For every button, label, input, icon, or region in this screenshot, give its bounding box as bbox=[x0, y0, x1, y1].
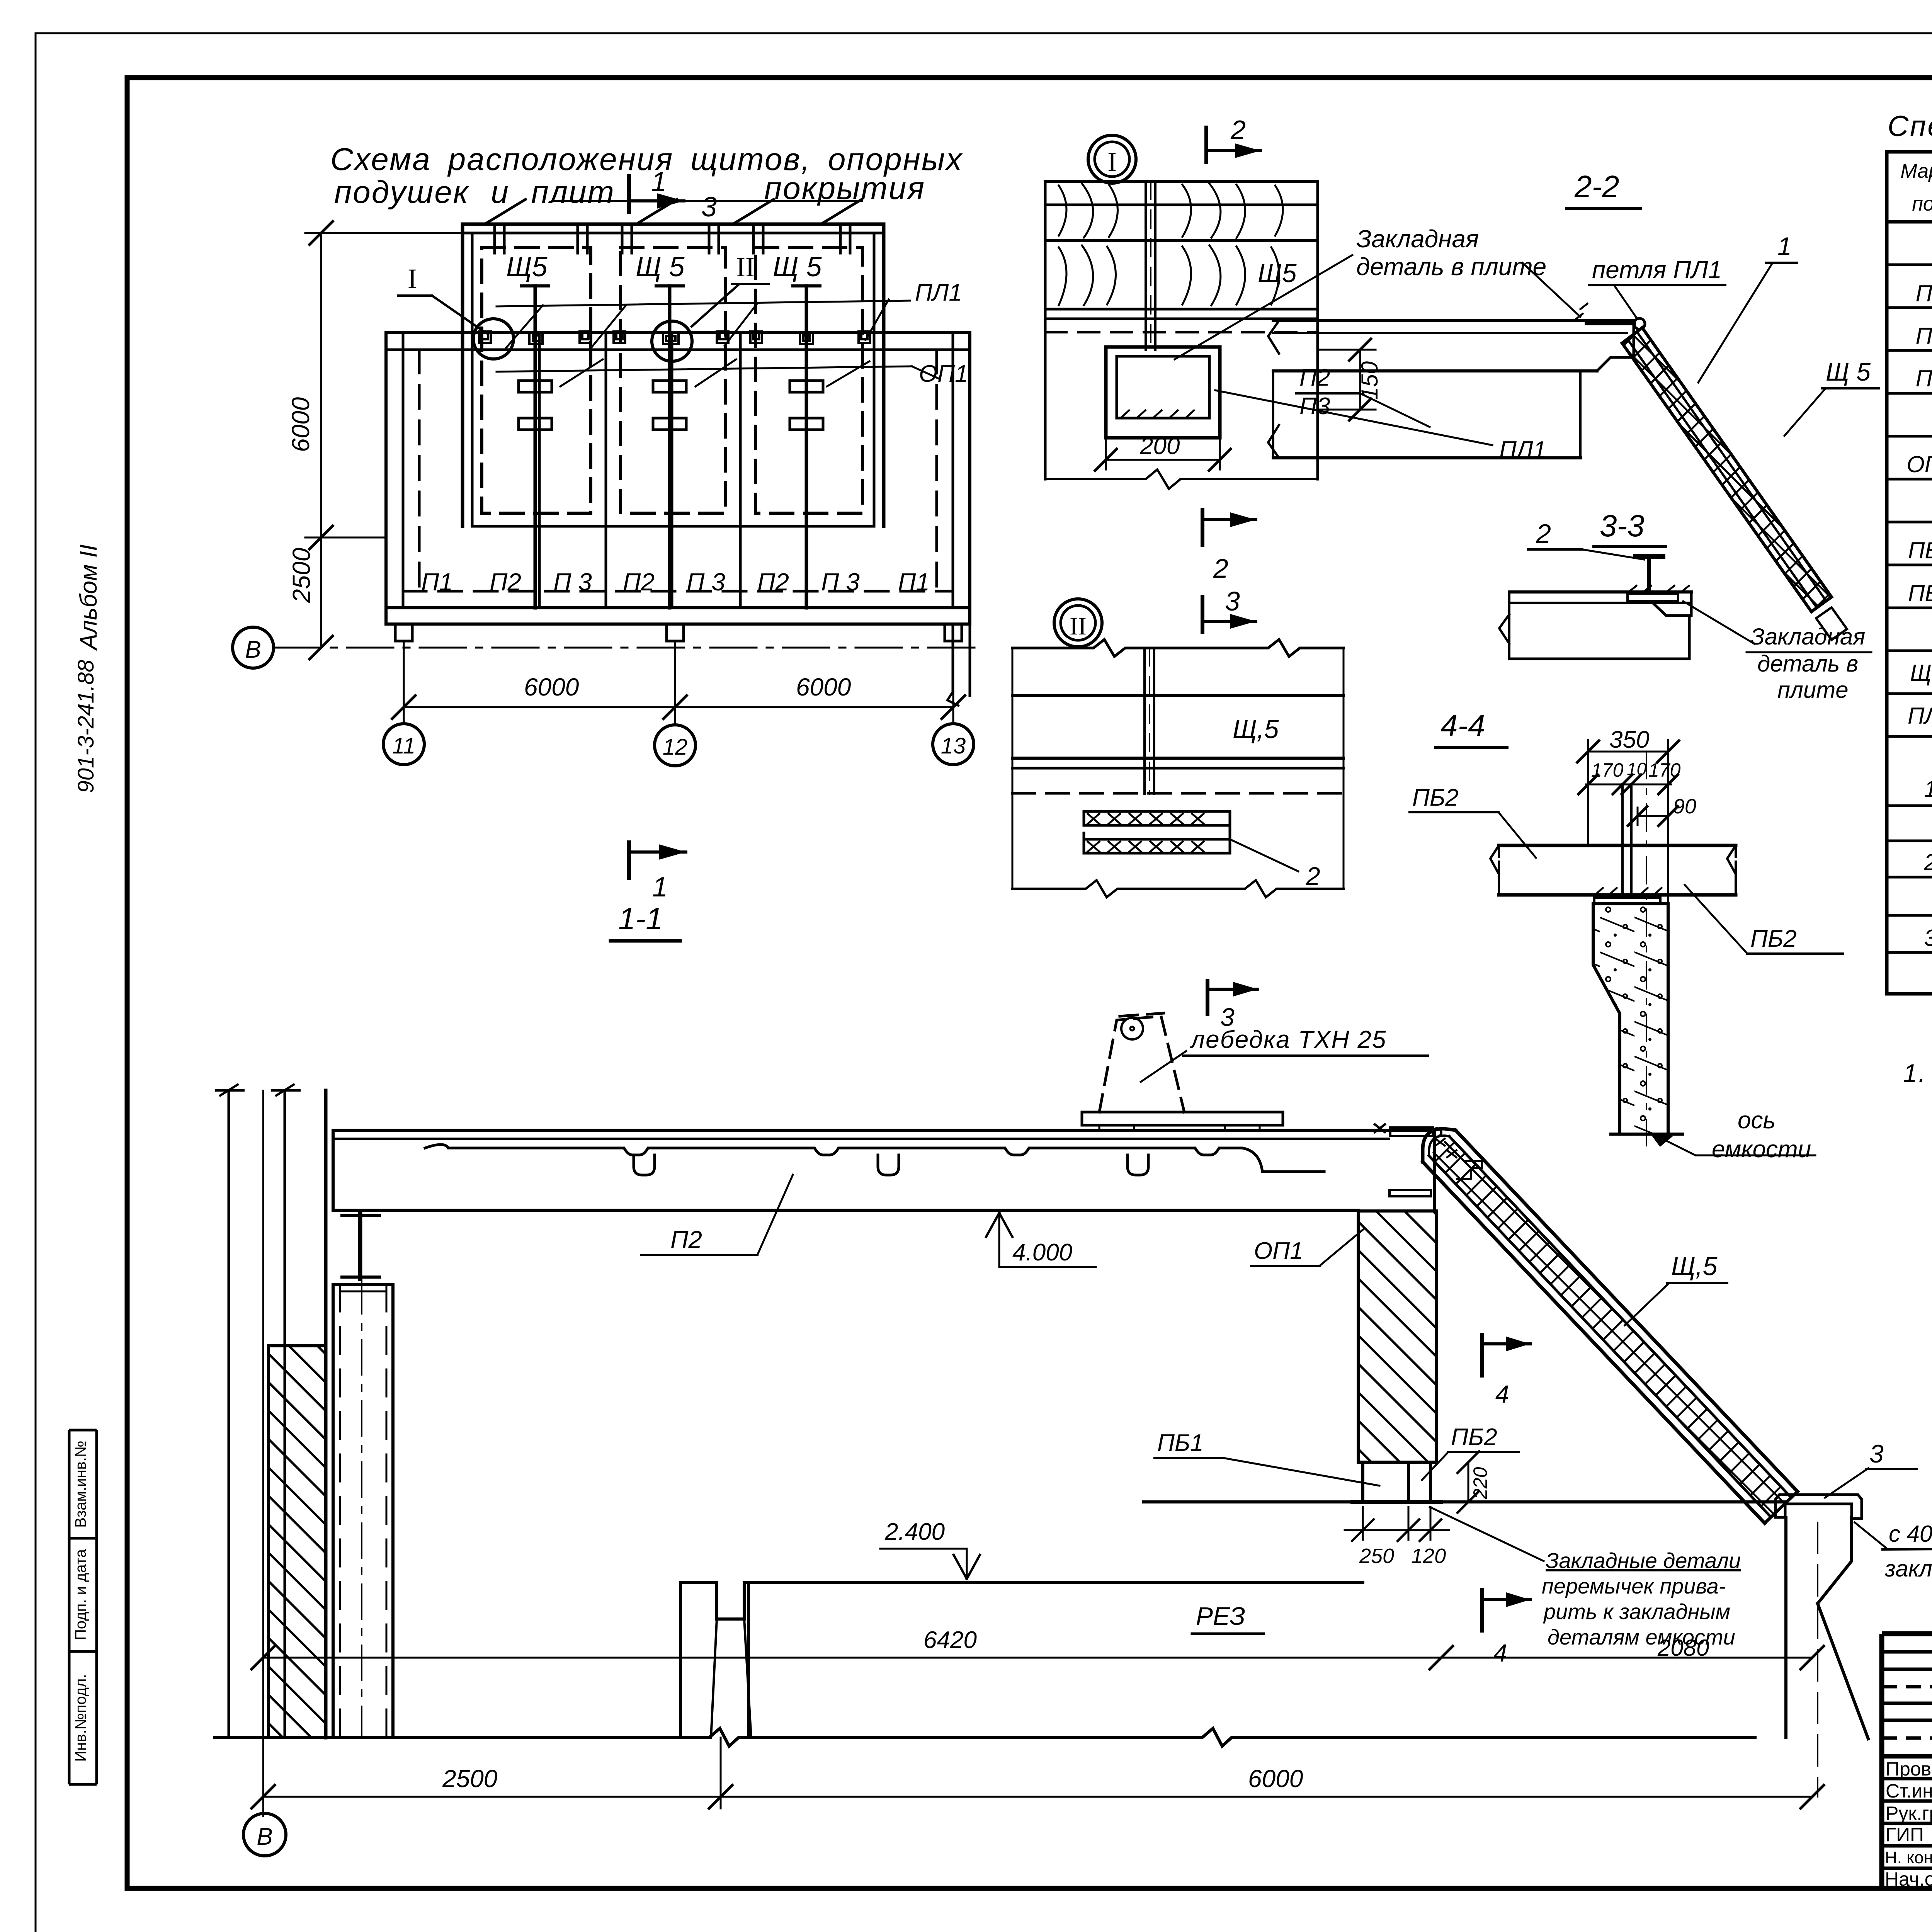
svg-text:13: 13 bbox=[941, 733, 966, 759]
150 dim right bbox=[1359, 350, 1361, 410]
axis dash-dot line B bbox=[274, 647, 981, 649]
lower tank block outline bbox=[386, 331, 970, 334]
plate joint lines bbox=[538, 332, 541, 608]
left column bbox=[333, 1284, 393, 1738]
svg-text:3: 3 bbox=[1924, 925, 1932, 951]
svg-text:ПЛ1: ПЛ1 bbox=[915, 279, 962, 306]
SECTION 2-2 bbox=[1268, 169, 1879, 640]
svg-text:II: II bbox=[1070, 612, 1087, 640]
dim line 6000+6000 bbox=[404, 706, 953, 708]
svg-text:подушек и плит: подушек и плит bbox=[334, 175, 615, 210]
beam band bbox=[1499, 844, 1736, 847]
staff labels bbox=[1885, 1758, 1932, 1890]
svg-text:120: 120 bbox=[1411, 1544, 1446, 1568]
svg-text:РЕЗ: РЕЗ bbox=[1196, 1602, 1245, 1630]
svg-text:заклинить: заклинить bbox=[1884, 1556, 1932, 1582]
svg-text:ГИП: ГИП bbox=[1886, 1824, 1924, 1845]
NOTE TEXT bbox=[1903, 1059, 1932, 1194]
svg-text:ПБ2: ПБ2 bbox=[1908, 580, 1932, 606]
svg-text:2-2: 2-2 bbox=[1574, 169, 1619, 204]
dashed line through hooks bbox=[386, 349, 970, 351]
svg-text:I: I bbox=[1107, 147, 1116, 177]
4.000 elevation bbox=[999, 1213, 1096, 1267]
svg-text:емкости: емкости bbox=[1712, 1136, 1811, 1163]
svg-text:П2: П2 bbox=[670, 1226, 702, 1253]
svg-text:П2: П2 bbox=[1916, 323, 1932, 349]
slab end face bbox=[1433, 1130, 1436, 1211]
DETAIL I bbox=[1045, 115, 1546, 632]
ОП1 middle column hatched bbox=[1358, 1211, 1437, 1462]
panel dashed outline 1 bbox=[482, 248, 591, 513]
plan right-edge extension below band bbox=[952, 624, 954, 692]
plank band outline bbox=[1045, 180, 1318, 183]
slab band bbox=[1271, 321, 1634, 367]
svg-text:901-3-241.88: 901-3-241.88 bbox=[73, 660, 99, 793]
tank left wall (стакан) bbox=[680, 1582, 748, 1738]
svg-text:3: 3 bbox=[701, 192, 717, 223]
svg-text:2: 2 bbox=[1536, 519, 1551, 549]
svg-text:1: 1 bbox=[1924, 776, 1932, 802]
bottom dims 2500 6000 bbox=[263, 1796, 1812, 1798]
axis circle 11 bbox=[383, 724, 424, 765]
x marks + plate bbox=[1595, 888, 1662, 895]
svg-text:11: 11 bbox=[392, 733, 415, 759]
svg-text:Щ,5: Щ,5 bbox=[1233, 714, 1279, 744]
section mark 3 bbox=[1201, 597, 1204, 632]
svg-text:2: 2 bbox=[1923, 849, 1932, 875]
hatched bar (item 2) bbox=[1084, 811, 1230, 825]
закладная leader to plate bbox=[1522, 263, 1580, 317]
svg-text:6000: 6000 bbox=[1248, 1765, 1303, 1793]
embedded channel box bbox=[1106, 347, 1220, 438]
hatched wall panel bbox=[269, 1346, 326, 1738]
section mark 2 (top) bbox=[1204, 128, 1208, 162]
panel top inner marks bbox=[1435, 1139, 1456, 1157]
ПЛ1 leader line bbox=[497, 301, 910, 306]
detail circle II bbox=[652, 321, 692, 361]
detail circle I bbox=[473, 319, 514, 359]
svg-text:2500: 2500 bbox=[287, 548, 315, 603]
svg-text:лебедка ТХН 25: лебедка ТХН 25 bbox=[1189, 1026, 1387, 1053]
svg-text:Взам.инв.№: Взам.инв.№ bbox=[72, 1440, 89, 1528]
left dim line bbox=[320, 233, 322, 648]
centre double line bbox=[1145, 182, 1147, 350]
axis verticals to circles bbox=[403, 641, 405, 723]
svg-text:В: В bbox=[257, 1823, 272, 1850]
svg-text:ОП1: ОП1 bbox=[1254, 1238, 1303, 1264]
spec header texts bbox=[1900, 160, 1932, 215]
wood grain waves bbox=[1059, 184, 1118, 238]
axis circle 13 bbox=[933, 724, 974, 765]
перемычки boxes under column bbox=[1363, 1462, 1408, 1502]
svg-text:12: 12 bbox=[663, 735, 688, 760]
I-beam symbol bbox=[1636, 554, 1663, 559]
svg-text:П 3: П 3 bbox=[553, 568, 592, 596]
winch platform bbox=[1082, 1112, 1283, 1125]
svg-text:Щ 5: Щ 5 bbox=[1826, 357, 1871, 386]
svg-text:ПБ2: ПБ2 bbox=[1750, 925, 1797, 952]
axis B vertical bbox=[262, 1090, 264, 1816]
margin stamp cells bbox=[69, 1430, 97, 1784]
svg-text:Н. контр: Н. контр bbox=[1885, 1848, 1932, 1867]
svg-text:П2: П2 bbox=[1299, 364, 1330, 391]
slab band bbox=[1509, 590, 1691, 594]
svg-text:Щ 5: Щ 5 bbox=[636, 252, 685, 282]
section mark 4 upper bbox=[1480, 1335, 1484, 1376]
roof slab: top lines bbox=[333, 1129, 1435, 1132]
svg-text:П1: П1 bbox=[1916, 281, 1932, 306]
svg-text:Рук.гр.: Рук.гр. bbox=[1886, 1803, 1932, 1824]
svg-text:Закладная: Закладная bbox=[1750, 624, 1865, 650]
220 dim rotated bbox=[1468, 1462, 1469, 1502]
svg-text:1-1: 1-1 bbox=[618, 901, 663, 936]
6420 dim bbox=[263, 1657, 1812, 1659]
detail I bubble bbox=[1088, 135, 1136, 183]
svg-text:4: 4 bbox=[1493, 1639, 1507, 1667]
right wall bbox=[1786, 1517, 1868, 1739]
svg-text:350: 350 bbox=[1609, 726, 1649, 753]
svg-text:6000: 6000 bbox=[524, 673, 579, 701]
svg-text:Нач.отд: Нач.отд bbox=[1885, 1868, 1932, 1890]
svg-text:3: 3 bbox=[1225, 586, 1240, 616]
svg-text:рить к закладным: рить к закладным bbox=[1543, 1599, 1730, 1624]
PLAN VIEW bbox=[233, 167, 981, 903]
axis circle B section bbox=[243, 1813, 286, 1856]
inner dashed rect of tank bbox=[403, 349, 953, 351]
bottom break bbox=[1012, 880, 1344, 897]
svg-text:4-4: 4-4 bbox=[1440, 708, 1485, 743]
svg-text:6000: 6000 bbox=[796, 673, 851, 701]
support strut under slab left bbox=[358, 1213, 362, 1279]
hook symbols row bbox=[479, 332, 870, 344]
section mark 2 bottom bbox=[1201, 510, 1204, 545]
SPEC TABLE bbox=[1887, 110, 1932, 994]
ОП1 leader line bbox=[497, 366, 912, 372]
svg-text:петля ПЛ1: петля ПЛ1 bbox=[1592, 256, 1722, 284]
svg-text:2.400: 2.400 bbox=[884, 1519, 945, 1545]
leader 2 bbox=[1230, 839, 1298, 871]
svg-text:деталь в: деталь в bbox=[1757, 651, 1858, 677]
axis circle B plan bbox=[233, 627, 274, 668]
svg-text:П1: П1 bbox=[898, 568, 930, 596]
svg-text:Щ 5: Щ 5 bbox=[1910, 660, 1932, 686]
svg-text:П3: П3 bbox=[1299, 393, 1330, 420]
spec grid bbox=[1887, 152, 1932, 994]
slab underside with ribs bbox=[425, 1145, 1324, 1172]
section mark 1 bottom bbox=[627, 842, 631, 878]
svg-text:Щ5: Щ5 bbox=[1258, 259, 1297, 288]
svg-text:3: 3 bbox=[1869, 1439, 1884, 1468]
svg-text:220: 220 bbox=[1469, 1467, 1491, 1500]
PLAN TITLE bbox=[330, 142, 963, 210]
panel dashed outline 3 bbox=[755, 248, 862, 513]
SECTION 3-3 bbox=[1499, 509, 1871, 703]
svg-text:2: 2 bbox=[1213, 553, 1228, 583]
svg-text:перемычек прива-: перемычек прива- bbox=[1542, 1574, 1726, 1598]
winch dashed bbox=[1099, 1013, 1184, 1112]
bottom break line bbox=[1045, 469, 1318, 489]
svg-text:плите: плите bbox=[1777, 677, 1849, 703]
svg-text:П2: П2 bbox=[623, 568, 655, 596]
svg-text:деталь в плите: деталь в плите bbox=[1356, 253, 1546, 281]
svg-text:6000: 6000 bbox=[287, 397, 315, 452]
svg-text:Подп. и дата: Подп. и дата bbox=[72, 1549, 89, 1640]
strip joint ticks bbox=[493, 224, 496, 253]
tank floor bbox=[214, 1728, 1755, 1746]
right support channel bbox=[1776, 1495, 1862, 1519]
SECTION 4-4 bbox=[1410, 708, 1843, 1163]
svg-text:ПБ2: ПБ2 bbox=[1412, 784, 1459, 811]
svg-text:II: II bbox=[736, 252, 755, 282]
svg-text:Провер.: Провер. bbox=[1886, 1758, 1932, 1780]
250 120 dims bbox=[1362, 1507, 1364, 1540]
concrete column bbox=[1593, 904, 1668, 1134]
embedded plate at slab end bbox=[1390, 1128, 1433, 1136]
svg-text:2: 2 bbox=[1230, 115, 1246, 145]
svg-text:ПЛ1: ПЛ1 bbox=[1908, 703, 1932, 729]
dashed line through bbox=[1045, 331, 1318, 333]
top band lines bbox=[1012, 639, 1344, 656]
svg-text:П1: П1 bbox=[421, 568, 453, 596]
panel centre lines with T-tops bbox=[535, 286, 806, 608]
panel dashed outline 2 bbox=[621, 248, 726, 513]
centre double line bbox=[1143, 648, 1146, 794]
panel bottom cap bbox=[1765, 1492, 1798, 1523]
svg-text:I: I bbox=[408, 263, 417, 294]
section mark 4 lower bbox=[1480, 1590, 1484, 1631]
left wall lines bbox=[228, 1090, 230, 1738]
hinge node bbox=[1634, 318, 1645, 329]
svg-text:ПБ2: ПБ2 bbox=[1451, 1424, 1497, 1451]
roof upper strip bbox=[463, 223, 884, 226]
tank right chamber top edge bbox=[1144, 1500, 1785, 1503]
plate labels bbox=[421, 568, 930, 596]
svg-text:ось: ось bbox=[1738, 1107, 1776, 1134]
hoist pad pairs bbox=[519, 381, 823, 430]
svg-text:Спецификация к схеме располож: Спецификация к схеме расположения покрыт… bbox=[1888, 110, 1932, 142]
svg-text:Закладная: Закладная bbox=[1356, 225, 1479, 253]
LEFT MARGIN bbox=[69, 544, 102, 1784]
TITLE BLOCK bbox=[1882, 1634, 1932, 1895]
svg-text:П3: П3 bbox=[1916, 366, 1932, 391]
svg-text:В: В bbox=[245, 636, 261, 663]
svg-text:Закладные детали: Закладные детали bbox=[1546, 1548, 1741, 1573]
lower block bottom band bbox=[386, 606, 970, 609]
200 dim bbox=[1106, 459, 1220, 461]
SECTION 1-1 bbox=[214, 901, 1932, 1856]
detail II bubble bbox=[1054, 599, 1102, 647]
panel crosshatch bbox=[1429, 1136, 1791, 1517]
lower band lines bbox=[1012, 757, 1344, 760]
spec rows bbox=[1906, 235, 1932, 986]
Закладные детали text bbox=[1542, 1548, 1741, 1649]
joint lines bbox=[1621, 784, 1624, 895]
svg-text:Щ 5: Щ 5 bbox=[773, 252, 822, 282]
Щ5 labels bbox=[506, 252, 822, 282]
svg-text:1: 1 bbox=[652, 872, 668, 903]
thin upper rows bbox=[1882, 1650, 1932, 1654]
sloping panel Щ5 bbox=[1456, 1130, 1798, 1492]
svg-text:П 3: П 3 bbox=[821, 568, 860, 596]
svg-text:Марка: Марка bbox=[1900, 160, 1932, 182]
svg-text:с 40: с 40 bbox=[1889, 1521, 1932, 1547]
svg-text:3-3: 3-3 bbox=[1600, 509, 1645, 543]
svg-text:ПБ1: ПБ1 bbox=[1908, 537, 1932, 563]
sloping panel bbox=[1642, 328, 1832, 597]
tank left chamber top edge bbox=[748, 1581, 1363, 1584]
slab bottom line bbox=[333, 1209, 1358, 1212]
svg-text:Ст.инж: Ст.инж bbox=[1886, 1780, 1932, 1802]
hinge circle bbox=[1433, 1128, 1441, 1137]
svg-text:6420: 6420 bbox=[923, 1627, 977, 1653]
svg-text:1: 1 bbox=[651, 167, 667, 197]
svg-text:250: 250 bbox=[1359, 1544, 1394, 1568]
DETAIL II bbox=[1012, 599, 1344, 897]
bearing plate on OP1 bbox=[1389, 1190, 1431, 1196]
svg-text:4.000: 4.000 bbox=[1012, 1239, 1072, 1266]
axis pads bbox=[395, 624, 412, 641]
section mark 1 top bbox=[629, 176, 684, 212]
svg-text:ОП1: ОП1 bbox=[919, 361, 968, 387]
svg-text:П 3: П 3 bbox=[687, 568, 725, 596]
svg-text:ПБ1: ПБ1 bbox=[1157, 1430, 1204, 1456]
staff rows bbox=[1882, 1777, 1932, 1781]
svg-text:4: 4 bbox=[1495, 1380, 1509, 1408]
section mark 3 top bbox=[1206, 981, 1209, 1014]
svg-text:2: 2 bbox=[1306, 862, 1320, 890]
leader slants to hooks bbox=[506, 305, 543, 348]
svg-text:1: 1 bbox=[1777, 232, 1792, 260]
svg-text:200: 200 bbox=[1139, 433, 1180, 459]
upper block side edges bbox=[461, 224, 464, 526]
svg-text:Щ,5: Щ,5 bbox=[1671, 1252, 1718, 1281]
svg-text:Щ5: Щ5 bbox=[506, 252, 548, 282]
svg-text:П2: П2 bbox=[757, 568, 789, 596]
svg-text:ОП1: ОП1 bbox=[1906, 451, 1932, 477]
panel top cap rounded bbox=[1423, 1129, 1456, 1162]
svg-text:1. Плиты покрытия приварить: 1. Плиты покрытия приварить к мет.балке … bbox=[1903, 1059, 1932, 1087]
svg-text:поз.: поз. bbox=[1912, 193, 1932, 215]
svg-text:2500: 2500 bbox=[442, 1765, 498, 1793]
svg-text:Альбом II: Альбом II bbox=[75, 544, 102, 651]
svg-text:П2: П2 bbox=[490, 568, 521, 596]
svg-text:Инв.№подл.: Инв.№подл. bbox=[72, 1674, 89, 1762]
axis circle 12 bbox=[655, 725, 696, 766]
